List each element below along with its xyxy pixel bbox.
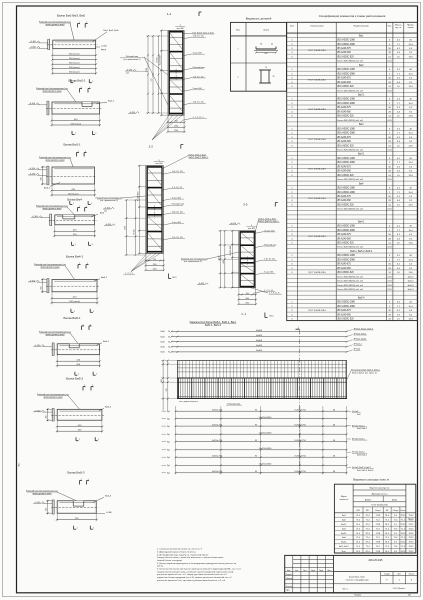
svg-text:724.2: 724.2 bbox=[400, 533, 405, 535]
svg-text:прим. уровень шва): прим. уровень шва) bbox=[41, 267, 60, 269]
svg-text:Ø16 А500С-520: Ø16 А500С-520 bbox=[337, 174, 354, 177]
svg-text:1718: 1718 bbox=[376, 515, 380, 517]
svg-text:1760: 1760 bbox=[146, 68, 148, 72]
svg-text:250 (нахл): 250 (нахл) bbox=[69, 67, 80, 69]
svg-text:Наименование: Наименование bbox=[354, 26, 370, 28]
svg-text:Кр1: Кр1 bbox=[167, 411, 170, 413]
svg-text:Ø16 А500С-520: Ø16 А500С-520 bbox=[337, 85, 354, 88]
svg-text:290: 290 bbox=[265, 53, 268, 55]
svg-text:Бм5-1, Бм5-2, Бм5-3: Бм5-1, Бм5-2, Бм5-3 bbox=[189, 157, 209, 159]
svg-text:14х250=3500: 14х250=3500 bbox=[259, 448, 272, 450]
svg-text:ГОСТ 34028-2016: ГОСТ 34028-2016 bbox=[308, 198, 327, 200]
svg-text:Поз.: Поз. bbox=[236, 30, 241, 32]
svg-text:Кр1: Кр1 bbox=[167, 442, 170, 444]
svg-text:ГОСТ 34028-2016: ГОСТ 34028-2016 bbox=[308, 168, 327, 170]
svg-text:-0.100: -0.100 bbox=[32, 216, 39, 218]
svg-text:14х250=3500: 14х250=3500 bbox=[259, 433, 272, 435]
svg-text:Бм4, Бм4-1: Бм4, Бм4-1 bbox=[357, 455, 367, 457]
svg-text:81: 81 bbox=[168, 336, 170, 338]
svg-text:Бм5-4: Бм5-4 bbox=[358, 298, 365, 300]
svg-text:Балка Бм3-1: Балка Бм3-1 bbox=[64, 143, 81, 147]
svg-text:3-3: 3-3 bbox=[243, 203, 248, 207]
svg-text:Бм2-1: Бм2-1 bbox=[358, 95, 365, 97]
svg-text:Бетон В20 (М250) м3, м3: Бетон В20 (М250) м3, м3 bbox=[337, 289, 363, 291]
svg-text:Бетон В20 (М250) м3, м3: Бетон В20 (М250) м3, м3 bbox=[337, 247, 363, 249]
svg-text:Бм4-1, Бм5-1 (см. прим. 4): Бм4-1, Бм5-1 (см. прим. 4) bbox=[352, 372, 377, 374]
svg-text:724.2: 724.2 bbox=[408, 519, 413, 521]
svg-text:Кр1: Кр1 bbox=[167, 450, 170, 452]
svg-text:1-1: 1-1 bbox=[167, 12, 172, 16]
svg-text:Марка: Марка bbox=[341, 496, 348, 498]
svg-text:Кр1: Кр1 bbox=[167, 426, 170, 428]
svg-text:Ø16 А500С-1080: Ø16 А500С-1080 bbox=[337, 127, 355, 130]
svg-text:шаг 400: шаг 400 bbox=[177, 28, 184, 30]
svg-text:Изделия арматурные: Изделия арматурные bbox=[370, 488, 391, 490]
svg-text:-0.400: -0.400 bbox=[198, 283, 205, 285]
svg-text:(см. примечание 5): (см. примечание 5) bbox=[184, 261, 202, 263]
svg-text:1718: 1718 bbox=[376, 542, 380, 544]
svg-text:Разраб.: Разраб. bbox=[286, 574, 293, 576]
svg-text:8: 8 bbox=[411, 580, 412, 582]
svg-text:Ø16 А500С-1080: Ø16 А500С-1080 bbox=[337, 187, 355, 190]
svg-text:Бетон В20 (М250) м3, м3: Бетон В20 (М250) м3, м3 bbox=[337, 90, 363, 92]
svg-text:ГОСТ 34028-2016: ГОСТ 34028-2016 bbox=[371, 505, 388, 507]
svg-text:250 (нахл): 250 (нахл) bbox=[68, 193, 79, 195]
svg-text:ГОСТ 34028-2016: ГОСТ 34028-2016 bbox=[308, 310, 327, 312]
svg-text:1. Схема расположения балок см: 1. Схема расположения балок см. листы 2,… bbox=[157, 549, 202, 551]
svg-text:Ø16 А500С-520: Ø16 А500С-520 bbox=[337, 144, 354, 147]
svg-text:Бетон В20 (М250) м3, м3: Бетон В20 (М250) м3, м3 bbox=[337, 179, 363, 181]
svg-text:расчетное время t=2 час, при с: расчетное время t=2 час, при смене рабоч… bbox=[157, 579, 226, 582]
svg-text:550 (нахл): 550 (нахл) bbox=[69, 63, 80, 65]
svg-text:элемента: элемента bbox=[339, 499, 349, 501]
svg-text:Ø6 А240-675: Ø6 А240-675 bbox=[337, 47, 351, 50]
svg-text:ГОСТ 34028-2016: ГОСТ 34028-2016 bbox=[308, 139, 327, 141]
svg-text:Ø6 А240-960: Ø6 А240-960 bbox=[337, 237, 351, 240]
svg-text:1718: 1718 bbox=[376, 524, 380, 526]
svg-text:Спецификация элементов к схеме: Спецификация элементов к схеме расположе… bbox=[319, 14, 386, 18]
svg-text:Балки Бм1...Бм5.: Балки Бм1...Бм5. bbox=[349, 577, 365, 579]
svg-text:2-2: 2-2 bbox=[149, 145, 154, 149]
svg-text:Ø6 А240-675: Ø6 А240-675 bbox=[337, 165, 351, 168]
svg-text:пол: пол bbox=[126, 72, 129, 74]
svg-text:8х400: 8х400 bbox=[256, 350, 263, 352]
svg-text:75: 75 bbox=[265, 67, 267, 69]
svg-text:ГОСТ 34028-2016: ГОСТ 34028-2016 bbox=[308, 109, 327, 111]
svg-text:150: 150 bbox=[153, 259, 156, 261]
svg-text:Кр1: Кр1 bbox=[167, 473, 170, 475]
svg-text:724.2: 724.2 bbox=[408, 524, 413, 526]
svg-text:Дата: Дата bbox=[328, 570, 332, 572]
svg-text:Провер.: Провер. bbox=[286, 578, 293, 580]
svg-text:Балка Бм4: Балка Бм4 bbox=[67, 198, 82, 202]
svg-text:Бм5-1, Бм5-1, Бм5: Бм5-1, Бм5-1, Бм5 bbox=[259, 219, 277, 221]
svg-text:Бм4, Бм4-1: Бм4, Бм4-1 bbox=[357, 428, 367, 430]
svg-text:Ø6 А240-675: Ø6 А240-675 bbox=[337, 136, 351, 139]
svg-text:Бетон В20 (М250) м3, м3: Бетон В20 (М250) м3, м3 bbox=[337, 150, 363, 152]
svg-text:Бм5-1: Бм5-1 bbox=[103, 341, 110, 343]
svg-text:Бм5-1 (Бм5-2), Бм5-3: Бм5-1 (Бм5-2), Бм5-3 bbox=[259, 221, 280, 223]
svg-text:Бм1 (Бм2), Бм2-1, Бм5: Бм1 (Бм2), Бм2-1, Бм5 bbox=[193, 33, 215, 35]
svg-text:Ø6 А240-960: Ø6 А240-960 bbox=[337, 110, 351, 113]
svg-text:Бм3: Бм3 bbox=[342, 528, 346, 530]
svg-text:прим. уровень шва): прим. уровень шва) bbox=[43, 208, 62, 210]
svg-text:Балка Бм5-3: Балка Бм5-3 bbox=[68, 471, 85, 475]
svg-text:Итого: Итого bbox=[401, 510, 406, 512]
svg-text:150: 150 bbox=[166, 389, 168, 392]
svg-text:Ø16 А500С-2980: Ø16 А500С-2980 bbox=[337, 102, 355, 105]
svg-text:Лист: Лист bbox=[303, 570, 307, 572]
svg-text:Итог: Итог bbox=[342, 551, 346, 553]
svg-text:Бм5, Бм5-3, Бм5-4: Бм5, Бм5-3, Бм5-4 bbox=[357, 470, 373, 472]
svg-text:Ø16 А500С-1080: Ø16 А500С-1080 bbox=[337, 157, 355, 160]
svg-text:Подп.: Подп. bbox=[319, 570, 324, 572]
svg-text:Ø6 А240-960: Ø6 А240-960 bbox=[337, 313, 351, 316]
svg-text:Общая: Общая bbox=[393, 510, 399, 512]
svg-text:М1:5: М1:5 bbox=[173, 277, 177, 279]
svg-text:Бм1, Бм2, Бм5: Бм1, Бм2, Бм5 bbox=[104, 30, 120, 32]
svg-text:Ø16 А500С-520: Ø16 А500С-520 bbox=[337, 242, 354, 245]
svg-text:Бетон В20 (М250) м3, м3: Бетон В20 (М250) м3, м3 bbox=[337, 285, 363, 287]
svg-text:Бетон В20 (М250) м3, м3: Бетон В20 (М250) м3, м3 bbox=[337, 209, 363, 211]
svg-text:Ø6 А240-960: Ø6 А240-960 bbox=[337, 140, 351, 143]
svg-text:7х250=1750: 7х250=1750 bbox=[294, 456, 306, 458]
svg-text:-0.100: -0.100 bbox=[35, 502, 42, 504]
svg-text:Эскиз: Эскиз bbox=[263, 30, 269, 32]
svg-text:Балка Бм5-1: Балка Бм5-1 bbox=[64, 316, 81, 320]
svg-text:отдельные балки порядовки (см.: отдельные балки порядовки (см. п.4), зам… bbox=[157, 576, 232, 579]
svg-text:ГОСТ 34028-2016: ГОСТ 34028-2016 bbox=[308, 236, 327, 238]
svg-text:8х400: 8х400 bbox=[256, 345, 263, 347]
svg-text:25: 25 bbox=[273, 76, 275, 78]
svg-text:724.2: 724.2 bbox=[408, 528, 413, 530]
svg-text:нест. длина повысотн.: нест. длина повысотн. bbox=[179, 401, 199, 403]
svg-text:Поз.: Поз. bbox=[290, 26, 295, 28]
svg-text:Бм2-1: Бм2-1 bbox=[108, 101, 115, 103]
svg-text:Бетон В20 (М250) м3, м3: Бетон В20 (М250) м3, м3 bbox=[337, 120, 363, 122]
svg-text:ГОСТ 34028-2016: ГОСТ 34028-2016 bbox=[308, 50, 327, 52]
svg-text:2. Арматурный каркас вязать по: 2. Арматурный каркас вязать по месту. bbox=[157, 550, 196, 553]
svg-text:Бм3-1: Бм3-1 bbox=[358, 154, 365, 156]
svg-text:250 (нахл): 250 (нахл) bbox=[69, 58, 80, 60]
svg-text:Балка Бм2-1: Балка Бм2-1 bbox=[69, 79, 86, 83]
svg-text:724.2: 724.2 bbox=[408, 537, 413, 539]
svg-text:Стыковать Бм1, Бм5-1, Бм5-1: Стыковать Бм1, Бм5-1, Бм5-1 bbox=[352, 370, 380, 372]
svg-text:Балки Бм1-Бм3, Бм5: Балки Бм1-Бм3, Бм5 bbox=[57, 14, 85, 18]
svg-text:4 - 4: 4 - 4 bbox=[241, 313, 246, 316]
svg-text:250 (нахл): 250 (нахл) bbox=[71, 123, 82, 125]
svg-text:Ø16 А500С-2980: Ø16 А500С-2980 bbox=[337, 258, 355, 261]
svg-text:Бм5-2: Бм5-2 bbox=[408, 281, 415, 283]
svg-text:Общая: Общая bbox=[375, 510, 381, 512]
svg-text:Ø16 А500С-1080: Ø16 А500С-1080 bbox=[337, 68, 355, 71]
svg-text:Бм5-1..Бм5-3: Бм5-1..Бм5-3 bbox=[339, 546, 349, 548]
svg-text:1718: 1718 bbox=[376, 533, 380, 535]
svg-text:Бм4-1: Бм4-1 bbox=[101, 277, 108, 279]
svg-text:Ø6: Ø6 bbox=[386, 510, 388, 512]
svg-text:2019-25-КЖ5: 2019-25-КЖ5 bbox=[369, 560, 384, 562]
svg-text:Ø16 А500С-520: Ø16 А500С-520 bbox=[337, 203, 354, 206]
svg-text:-0.130: -0.130 bbox=[126, 70, 133, 72]
svg-text:7х250=1750: 7х250=1750 bbox=[294, 410, 306, 412]
svg-text:Бм2-1: Бм2-1 bbox=[341, 524, 346, 526]
svg-text:300: 300 bbox=[40, 177, 42, 180]
svg-text:Бм4: Бм4 bbox=[359, 183, 364, 185]
svg-text:Изм.: Изм. bbox=[287, 570, 291, 572]
svg-text:Ø6 А240-675: Ø6 А240-675 bbox=[337, 195, 351, 198]
svg-text:Листов: Листов bbox=[409, 574, 415, 576]
svg-text:прим. уровень шва): прим. уровень шва) bbox=[46, 334, 65, 336]
svg-text:8x100=800: 8x100=800 bbox=[159, 55, 161, 64]
svg-text:Лист: Лист bbox=[397, 574, 401, 576]
svg-text:Ø12: Ø12 bbox=[366, 510, 369, 512]
svg-text:-0.100: -0.100 bbox=[29, 168, 36, 170]
svg-text:8х100: 8х100 bbox=[134, 230, 136, 235]
svg-text:300: 300 bbox=[46, 415, 48, 418]
svg-text:Ø16 А500С-1080: Ø16 А500С-1080 bbox=[337, 301, 355, 304]
svg-text:Бм2: Бм2 bbox=[342, 519, 346, 521]
svg-text:81: 81 bbox=[168, 341, 170, 343]
svg-text:7х250=1750: 7х250=1750 bbox=[294, 440, 306, 442]
svg-text:5х250=750: 5х250=750 bbox=[212, 440, 223, 442]
svg-text:8х400: 8х400 bbox=[256, 330, 263, 332]
svg-text:Ø6 А240-960: Ø6 А240-960 bbox=[337, 267, 351, 270]
svg-text:Ø6 А240-675: Ø6 А240-675 bbox=[337, 233, 351, 236]
svg-text:-0.490: -0.490 bbox=[105, 224, 112, 226]
svg-text:-0.000: -0.000 bbox=[101, 46, 108, 48]
svg-text:Бм3-1: Бм3-1 bbox=[341, 533, 346, 535]
svg-text:Ø6 А240-675: Ø6 А240-675 bbox=[337, 263, 351, 266]
svg-text:прим. уровень шва): прим. уровень шва) bbox=[33, 493, 52, 495]
svg-text:90: 90 bbox=[260, 44, 262, 46]
svg-text:Ø6 А240-675: Ø6 А240-675 bbox=[337, 106, 351, 109]
svg-text:Ø6 А240-960: Ø6 А240-960 bbox=[337, 81, 351, 84]
svg-text:прим. уровень шва): прим. уровень шва) bbox=[44, 397, 63, 399]
svg-text:ГОСТ 34028-2016: ГОСТ 34028-2016 bbox=[308, 80, 327, 82]
svg-text:расчетное время t=2 час. п.2,: расчетное время t=2 час. п.2, сварку для… bbox=[157, 573, 228, 576]
svg-text:Nдок: Nдок bbox=[311, 570, 315, 572]
svg-text:724.2: 724.2 bbox=[408, 551, 413, 553]
svg-text:724.2: 724.2 bbox=[400, 542, 405, 544]
svg-text:5. Бетонная б/ж балка при высо: 5. Бетонная б/ж балка при высоте швов до… bbox=[157, 568, 241, 571]
svg-text:месту.: месту. bbox=[157, 566, 164, 568]
svg-text:775: 775 bbox=[151, 79, 153, 82]
svg-text:Н.контр.: Н.контр. bbox=[286, 586, 293, 588]
svg-text:Лист 4: Лист 4 bbox=[342, 589, 347, 591]
svg-text:Кр1: Кр1 bbox=[167, 419, 170, 421]
svg-text:прим. уровень шва): прим. уровень шва) bbox=[46, 24, 65, 26]
svg-text:прим. уровень шва): прим. уровень шва) bbox=[43, 91, 62, 93]
svg-text:Ø16 А500С-2980: Ø16 А500С-2980 bbox=[337, 305, 355, 308]
svg-text:150: 150 bbox=[246, 293, 249, 295]
svg-text:Ø16 А500С-2980: Ø16 А500С-2980 bbox=[337, 229, 355, 232]
svg-text:шаг 400: шаг 400 bbox=[156, 163, 163, 165]
svg-text:Бм1: Бм1 bbox=[359, 35, 364, 37]
svg-text:Бм5-2: Бм5-2 bbox=[105, 407, 112, 409]
svg-text:-0.490: -0.490 bbox=[129, 112, 136, 114]
svg-text:724.2: 724.2 bbox=[408, 546, 413, 548]
svg-text:Стадия: Стадия bbox=[384, 574, 390, 576]
svg-text:81: 81 bbox=[168, 352, 170, 354]
svg-text:8х100: 8х100 bbox=[157, 58, 159, 63]
svg-text:Бм3: Бм3 bbox=[359, 124, 364, 126]
svg-text:-0.600: -0.600 bbox=[30, 47, 37, 49]
svg-text:Обозначение: Обозначение bbox=[310, 26, 324, 28]
svg-text:Защиту бетона балок, стыков б/: Защиту бетона балок, стыков б/ж выполнят… bbox=[157, 557, 224, 559]
svg-text:Ø6 А240-960: Ø6 А240-960 bbox=[337, 170, 351, 173]
svg-text:Бм5-1: Бм5-1 bbox=[408, 276, 415, 278]
svg-text:1718: 1718 bbox=[376, 551, 380, 553]
svg-text:Ø16 А500С-1080: Ø16 А500С-1080 bbox=[337, 225, 355, 228]
svg-text:Ø16 А500С-2980: Ø16 А500С-2980 bbox=[337, 72, 355, 75]
svg-text:Кр1: Кр1 bbox=[167, 457, 170, 459]
svg-text:Ø6 А240-675: Ø6 А240-675 bbox=[337, 77, 351, 80]
svg-text:Ø6 А240-960: Ø6 А240-960 bbox=[337, 51, 351, 54]
svg-text:Изм.: Изм. bbox=[19, 462, 21, 466]
svg-text:Бм5-3: Бм5-3 bbox=[408, 285, 415, 287]
svg-text:Бетон В20 (М250) м3, м3: Бетон В20 (М250) м3, м3 bbox=[337, 281, 363, 283]
svg-text:8х400: 8х400 bbox=[256, 335, 263, 337]
svg-text:Ведомость деталей: Ведомость деталей bbox=[246, 17, 272, 21]
svg-text:5х250=750: 5х250=750 bbox=[212, 424, 223, 426]
svg-text:Бм1: Бм1 bbox=[342, 515, 346, 517]
svg-text:4: 4 bbox=[399, 580, 400, 582]
svg-text:Кол.: Кол. bbox=[387, 26, 392, 28]
svg-text:Бм5: Бм5 bbox=[357, 414, 361, 416]
svg-text:Арматура класса: Арматура класса bbox=[372, 493, 389, 496]
svg-text:Ø16 А500С-2980: Ø16 А500С-2980 bbox=[337, 43, 355, 46]
svg-text:724.2: 724.2 bbox=[408, 533, 413, 535]
svg-text:14х250=3500: 14х250=3500 bbox=[259, 464, 272, 466]
svg-text:724.2: 724.2 bbox=[400, 515, 405, 517]
svg-text:Кр1: Кр1 bbox=[167, 434, 170, 436]
svg-text:-0.100: -0.100 bbox=[35, 345, 42, 347]
svg-text:-0.100: -0.100 bbox=[30, 41, 37, 43]
svg-text:Бм4-1: Бм4-1 bbox=[341, 542, 346, 544]
svg-text:Ø16: Ø16 bbox=[356, 510, 359, 512]
svg-text:-0.100: -0.100 bbox=[29, 280, 36, 282]
svg-text:Бетон В20 (М250) м3, м3: Бетон В20 (М250) м3, м3 bbox=[337, 276, 363, 278]
svg-text:Бм3-1, Бм3-1, Бм4: Бм3-1, Бм3-1, Бм4 bbox=[189, 154, 207, 156]
svg-text:Кол.: Кол. bbox=[295, 570, 299, 572]
svg-text:300: 300 bbox=[161, 380, 163, 383]
svg-text:Бм5-1, Бм5-2, Бм5-3: Бм5-1, Бм5-2, Бм5-3 bbox=[350, 251, 372, 253]
svg-text:7х250=1750: 7х250=1750 bbox=[294, 424, 306, 426]
svg-text:5х250=750: 5х250=750 bbox=[212, 410, 223, 412]
svg-text:-0.100: -0.100 bbox=[35, 410, 42, 412]
svg-text:724.2: 724.2 bbox=[408, 542, 413, 544]
svg-text:ООО «Проект»: ООО «Проект» bbox=[393, 588, 406, 590]
svg-text:фунд: фунд bbox=[101, 48, 107, 51]
svg-text:81: 81 bbox=[168, 347, 170, 349]
svg-text:45: 45 bbox=[271, 44, 273, 46]
svg-text:Ø16 А500С-520: Ø16 А500С-520 bbox=[337, 56, 354, 59]
svg-text:-0.430: -0.430 bbox=[29, 174, 36, 176]
svg-text:724.2: 724.2 bbox=[400, 551, 405, 553]
svg-text:Ведомость расхода стали, кг: Ведомость расхода стали, кг bbox=[353, 477, 389, 481]
svg-text:250 (нахл): 250 (нахл) bbox=[69, 301, 80, 303]
svg-text:(см. примечание 5): (см. примечание 5) bbox=[124, 59, 141, 61]
svg-text:ед., кг: ед., кг bbox=[395, 27, 401, 29]
svg-text:Ø16 А500С-520: Ø16 А500С-520 bbox=[337, 115, 354, 118]
svg-text:Бм5-3: Бм5-3 bbox=[105, 496, 112, 498]
svg-text:550 (нахл): 550 (нахл) bbox=[69, 54, 80, 56]
svg-text:Ø16 А500С-520: Ø16 А500С-520 bbox=[337, 318, 354, 321]
svg-text:Ø16 А500С-2980: Ø16 А500С-2980 bbox=[337, 132, 355, 135]
svg-text:8х400: 8х400 bbox=[256, 340, 263, 342]
svg-text:3. Антикоррозионную защиту см.: 3. Антикоррозионную защиту см. отдельный… bbox=[157, 553, 209, 556]
svg-text:Ø6 А240-960: Ø6 А240-960 bbox=[337, 199, 351, 202]
svg-text:пол: пол bbox=[104, 211, 107, 213]
svg-text:Ø16 А500С-520: Ø16 А500С-520 bbox=[337, 271, 354, 274]
svg-text:1200: 1200 bbox=[125, 226, 127, 230]
svg-text:724.2: 724.2 bbox=[400, 524, 405, 526]
svg-text:Бм3-1: Бм3-1 bbox=[44, 188, 51, 190]
svg-text:+0.000: +0.000 bbox=[230, 223, 237, 225]
svg-text:5х250=750: 5х250=750 bbox=[212, 471, 223, 473]
svg-text:14х250=3500: 14х250=3500 bbox=[259, 417, 272, 419]
svg-text:Ø16 А500С-1080: Ø16 А500С-1080 bbox=[337, 98, 355, 101]
svg-text:-0.480: -0.480 bbox=[106, 512, 113, 514]
svg-text:724.2: 724.2 bbox=[408, 515, 413, 517]
svg-text:=400: =400 bbox=[223, 260, 225, 264]
svg-text:5х250=750: 5х250=750 bbox=[212, 456, 223, 458]
svg-text:Бм2: Бм2 bbox=[359, 65, 364, 67]
svg-text:Формат: Формат bbox=[354, 594, 361, 597]
svg-text:7х250=1750: 7х250=1750 bbox=[294, 471, 306, 473]
svg-text:550 (нахл): 550 (нахл) bbox=[69, 72, 80, 74]
svg-text:Бм4-1: Бм4-1 bbox=[358, 221, 365, 223]
svg-text:балкой (балок, контуров).: балкой (балок, контуров). bbox=[157, 559, 183, 562]
svg-text:шаг 400: шаг 400 bbox=[248, 228, 255, 230]
svg-text:прим. уровень шва): прим. уровень шва) bbox=[46, 160, 65, 162]
svg-text:Сечения. Спецификация: Сечения. Спецификация bbox=[345, 579, 368, 582]
svg-text:Кр1: Кр1 bbox=[167, 465, 170, 467]
svg-text:-0.100: -0.100 bbox=[29, 103, 36, 105]
svg-text:Бетон В20 (М250) м3, м3: Бетон В20 (М250) м3, м3 bbox=[337, 61, 363, 63]
svg-text:Ø16 А500С-1080: Ø16 А500С-1080 bbox=[337, 39, 355, 42]
svg-text:Ø16 А500С-2980: Ø16 А500С-2980 bbox=[337, 191, 355, 194]
svg-text:81: 81 bbox=[168, 331, 170, 333]
svg-text:Ø16 А500С-2980: Ø16 А500С-2980 bbox=[337, 161, 355, 164]
svg-text:Бм5-4: Бм5-4 bbox=[408, 289, 415, 291]
svg-text:Балка Бм4-1: Балка Бм4-1 bbox=[66, 255, 83, 259]
svg-text:М1:5: М1:5 bbox=[270, 316, 274, 318]
svg-text:ГОСТ 34028-2016: ГОСТ 34028-2016 bbox=[308, 272, 327, 274]
svg-text:300: 300 bbox=[40, 287, 42, 290]
svg-text:Балка Бм5-2: Балка Бм5-2 bbox=[66, 377, 83, 381]
svg-text:(см. примечание 5): (см. примечание 5) bbox=[100, 200, 118, 202]
svg-text:Защиту балок рабочего шва осно: Защиту балок рабочего шва основания над … bbox=[157, 570, 234, 573]
svg-text:4. Длину опирания арматурных и: 4. Длину опирания арматурных и бетонируе… bbox=[157, 563, 237, 565]
svg-text:чание: чание bbox=[408, 27, 415, 29]
svg-text:Ø16 А500С-1080: Ø16 А500С-1080 bbox=[337, 254, 355, 257]
svg-text:-0.150: -0.150 bbox=[104, 208, 111, 210]
svg-text:Ø6 А240-675: Ø6 А240-675 bbox=[337, 309, 351, 312]
svg-text:А500С: А500С bbox=[365, 498, 372, 501]
svg-text:300: 300 bbox=[46, 508, 48, 511]
